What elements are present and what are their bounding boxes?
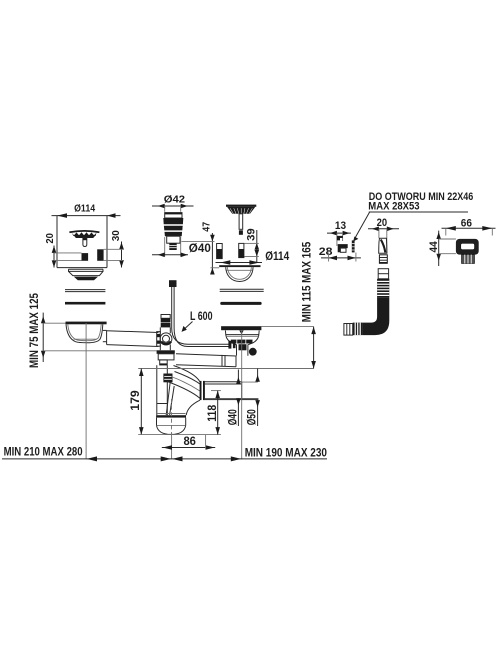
- svg-text:MIN 115 MAX 165: MIN 115 MAX 165: [300, 241, 314, 322]
- dimension Ø50 (outlet pipe outer): [245, 369, 260, 427]
- siphon outlet elbow curves: [167, 366, 200, 416]
- svg-text:MAX 28X53: MAX 28X53: [368, 201, 419, 213]
- corrugated hose vertical ribbed section: [377, 279, 389, 298]
- dimension 13: [327, 220, 351, 246]
- svg-text:28: 28: [319, 246, 333, 258]
- left sink bowl: [66, 324, 103, 343]
- left bowl outlet stub: [103, 330, 107, 344]
- svg-text:Ø42: Ø42: [164, 195, 186, 206]
- bottom dim arrow at left bowl center: [87, 456, 97, 461]
- svg-text:66: 66: [461, 217, 472, 229]
- label L 600 with leader arrow: [182, 309, 213, 332]
- dimension 20 (overflow elbow): [368, 217, 399, 253]
- underline below text block: [369, 211, 468, 213]
- mounting pin left (right column): [217, 244, 223, 259]
- svg-text:Ø114: Ø114: [265, 249, 289, 263]
- tee lower body: [158, 354, 174, 365]
- right branch pipe: [176, 354, 236, 367]
- gasket thin pair (left column): [65, 290, 105, 292]
- dimension Ø42 (plug figure): [152, 195, 194, 212]
- siphon label plate (dark): [163, 374, 172, 383]
- clamp pin right (dark): [97, 249, 103, 260]
- svg-text:MIN 190 MAX 230: MIN 190 MAX 230: [245, 446, 328, 460]
- overflow plug ribbed body: [163, 218, 183, 236]
- dimension MIN 75 MAX 125: [27, 293, 157, 368]
- drain flange body (left, below box): [69, 269, 104, 280]
- dimension 118: [205, 391, 221, 435]
- overflow hose top connector: [169, 280, 177, 287]
- siphon cup: [157, 418, 186, 435]
- sink cutout box (left figure): [57, 216, 107, 268]
- siphon cup rim (dark): [156, 415, 186, 417]
- strainer screw stem (right column): [239, 214, 243, 235]
- svg-text:30: 30: [111, 230, 122, 241]
- strainer basket dome (right column): [226, 205, 256, 214]
- tee cap (center pipe top): [161, 315, 171, 328]
- dimension 86: [162, 435, 215, 450]
- svg-text:118: 118: [205, 405, 219, 422]
- tee flange (dark): [157, 350, 175, 354]
- gasket thick (right column): [220, 302, 261, 305]
- svg-text:39: 39: [246, 228, 258, 241]
- outlet pipe coupling nut: [200, 381, 205, 400]
- dimension Ø114 (right column flange): [216, 249, 290, 265]
- dimension 28: [319, 246, 361, 261]
- siphon upper body walls: [157, 365, 186, 415]
- overflow elbow boot: [379, 238, 387, 253]
- left branch pipe: [107, 331, 159, 347]
- overflow clamp bracket: [337, 236, 348, 252]
- left bowl centerline: [85, 323, 87, 459]
- dimension 39: [244, 228, 259, 262]
- dimension 66: [442, 217, 496, 235]
- corrugated hose top fitting: [378, 269, 388, 279]
- dimension Ø40 (plug stub): [152, 237, 211, 257]
- overflow plug lower body and threaded tip: [167, 236, 180, 250]
- siphon centerline (dashed): [171, 399, 173, 459]
- tee compression nut (circle): [160, 333, 172, 345]
- corrugated hose horizontal ribbed section: [353, 323, 363, 336]
- svg-text:MIN 210 MAX 280: MIN 210 MAX 280: [4, 444, 83, 458]
- svg-text:179: 179: [128, 390, 142, 411]
- dimension Ø114 (left strainer figure): [52, 203, 121, 218]
- right sink bowl: [225, 330, 259, 355]
- drain flange (right column): [219, 265, 260, 281]
- dimension MIN 115 MAX 165: [300, 241, 316, 368]
- bottom dim arrow at right bowl center: [231, 456, 241, 461]
- dimension 44: [428, 231, 456, 266]
- mounting pin right (right column): [239, 243, 244, 257]
- svg-text:Ø114: Ø114: [74, 203, 95, 214]
- clamp gasket bar (dark): [352, 240, 355, 252]
- strainer stem (left): [83, 238, 87, 247]
- svg-text:Ø40: Ø40: [226, 409, 240, 425]
- rosette stub (ribbed): [462, 255, 475, 264]
- svg-text:86: 86: [183, 436, 196, 448]
- dimension 20 (left): [45, 233, 81, 268]
- svg-text:13: 13: [335, 220, 346, 232]
- corrugated hose end fitting: [344, 324, 353, 336]
- right bowl centerline: [241, 330, 243, 459]
- svg-text:Ø40: Ø40: [189, 243, 211, 255]
- long leader line (top ticks for 179 / MIN115): [138, 368, 313, 370]
- strainer basket dome (left): [69, 231, 99, 238]
- svg-text:44: 44: [428, 241, 440, 253]
- overflow plug cap: [165, 213, 182, 218]
- dimension Ø40 (outlet pipe inner): [226, 370, 241, 427]
- clamp pin left (dark): [82, 253, 89, 261]
- dimension 30 (right side of left figure): [104, 230, 124, 268]
- leader from text to clamp: [353, 212, 369, 241]
- outlet horizontal pipe: [205, 382, 259, 400]
- overflow elbow striped connector: [379, 255, 387, 263]
- svg-text:L 600: L 600: [190, 309, 213, 323]
- right sink bowl rim: [221, 326, 261, 334]
- svg-text:Ø50: Ø50: [245, 409, 259, 425]
- tee body: [157, 327, 171, 350]
- bottom dimension line: [2, 458, 327, 460]
- corrugated hose solid bend: [363, 298, 389, 336]
- bottom leader line (shared tick 179/118): [138, 434, 221, 436]
- dimension 179: [128, 369, 144, 435]
- gasket thick (left column): [65, 302, 105, 305]
- bottom dim arrow pair at siphon center: [161, 456, 183, 461]
- dimension 47: [182, 222, 220, 275]
- overflow hose L600 (thin hose): [172, 287, 230, 347]
- left sink bowl rim: [66, 322, 107, 325]
- gasket thin pair (right column): [220, 289, 264, 291]
- svg-text:MIN 75 MAX 125: MIN 75 MAX 125: [27, 293, 41, 368]
- overflow rosette fitting (front view): [456, 239, 479, 255]
- svg-text:20: 20: [45, 233, 56, 244]
- right rim leader to MIN115 dim: [261, 326, 313, 328]
- svg-text:47: 47: [202, 222, 213, 232]
